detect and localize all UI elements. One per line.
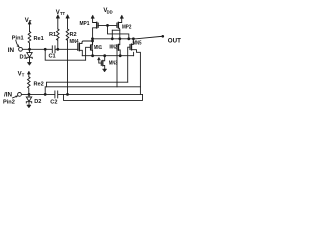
svg-text:D1: D1	[20, 55, 27, 61]
svg-text:MN2: MN2	[110, 44, 118, 50]
svg-text:D2: D2	[34, 99, 41, 105]
svg-text:MN3: MN3	[109, 61, 117, 67]
svg-text:R2: R2	[70, 32, 77, 38]
svg-text:C1: C1	[49, 53, 56, 59]
svg-text:R1: R1	[49, 32, 56, 38]
svg-text:MN4: MN4	[70, 39, 79, 45]
svg-text:Re2: Re2	[34, 81, 44, 87]
svg-text:Re1: Re1	[34, 36, 44, 42]
svg-text:MN1: MN1	[94, 45, 102, 51]
svg-text:T: T	[29, 19, 32, 24]
svg-text:/IN: /IN	[4, 91, 12, 98]
svg-text:OUT: OUT	[168, 38, 181, 45]
svg-text:MP2: MP2	[122, 25, 131, 31]
svg-text:T: T	[22, 72, 25, 77]
svg-text:C2: C2	[50, 99, 57, 105]
svg-text:Pin2: Pin2	[3, 99, 15, 105]
svg-text:MP1: MP1	[80, 21, 90, 27]
svg-text:TT: TT	[60, 11, 66, 16]
svg-text:Pin1: Pin1	[12, 36, 24, 42]
svg-text:DD: DD	[107, 9, 113, 14]
svg-text:MN5: MN5	[133, 40, 142, 46]
svg-text:IN: IN	[8, 47, 15, 54]
